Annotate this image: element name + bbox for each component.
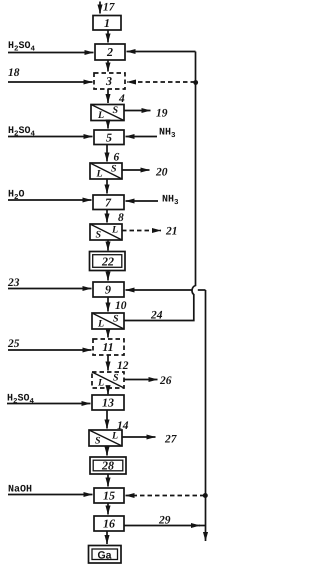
separator 14 [89,430,122,446]
stream 20 output [122,169,150,171]
wire box11 to separator 12 [107,355,109,371]
svg-text:NH3: NH3 [162,195,179,208]
box 7 [93,195,124,210]
wire box2 to box3 [107,60,109,72]
separator 10 [92,313,124,329]
stream 21 dashed output [122,230,161,232]
svg-text:28: 28 [101,459,114,473]
svg-text:21: 21 [165,226,178,238]
svg-text:22: 22 [101,255,114,269]
wire box5 to separator 6 [106,145,108,162]
wire recycle into box 9 from right (passes under hop) [198,289,206,291]
svg-text:11: 11 [102,340,113,354]
svg-text:L: L [97,319,104,330]
svg-text:S: S [96,230,102,241]
box 2 [95,44,125,60]
svg-text:23: 23 [7,277,20,289]
separator 12 (dashed) [92,372,124,388]
wire sep10 to box11 [107,329,109,338]
svg-text:26: 26 [159,375,172,387]
svg-text:L: L [96,169,103,180]
wire box7 to separator 8 [106,210,108,223]
svg-text:13: 13 [102,396,114,410]
wire sep8 to box22 [107,240,109,251]
svg-text:12: 12 [117,360,129,372]
svg-text:9: 9 [105,283,111,297]
svg-text:1: 1 [104,16,110,30]
box 13 [92,395,124,410]
svg-text:20: 20 [155,167,168,179]
wire H2SO4 into box 13 [7,403,91,405]
svg-text:L: L [97,110,104,121]
wire sep14 to box28 [106,446,108,456]
stream 19 output [124,110,151,112]
svg-text:4: 4 [118,93,125,105]
svg-text:3: 3 [105,74,112,88]
wire H2SO4 into box 2 [8,52,94,54]
svg-text:2: 2 [106,45,113,59]
wire recycle into box 2 from right [127,51,196,53]
wire stream 23 into box 9 [8,288,92,290]
svg-text:10: 10 [115,300,127,312]
wire sep12 to box13 [107,388,109,394]
wire NaOH into box 15 [8,494,93,496]
wire NH3 into box 7 [126,200,159,202]
right vertical wire (feeds box 9, box 15, exits bottom) [205,290,207,541]
svg-text:17: 17 [103,2,116,14]
svg-text:7: 7 [105,196,112,210]
wire H2SO4 into box 5 [8,136,93,138]
svg-text:5: 5 [106,131,112,145]
svg-text:L: L [111,431,118,442]
svg-text:6: 6 [114,152,120,164]
svg-text:H2SO4: H2SO4 [8,41,36,54]
separator 4 [91,105,124,121]
wire box22 to box9 [107,271,109,281]
svg-text:15: 15 [103,489,115,503]
junction dot on right vertical [203,493,208,498]
svg-text:S: S [113,314,119,325]
stream 27 output [122,436,156,438]
wire box28 to box15 [107,474,109,487]
svg-text:L: L [111,225,118,236]
wire box13 to separator 14 [106,410,108,429]
box 16 [94,516,124,531]
separator 6 [90,163,122,179]
svg-text:Ga: Ga [97,550,111,562]
separator 8 [90,224,122,240]
box 9 [93,282,124,297]
svg-text:NH3: NH3 [159,128,176,141]
svg-text:18: 18 [8,67,20,79]
svg-text:L: L [97,378,104,389]
box 5 [94,130,124,145]
svg-text:25: 25 [7,338,20,350]
box 28 (double border) [90,457,126,474]
wire stream 18 into box 3 [8,81,93,83]
wire dashed recycle into box 15 from right [126,495,205,497]
box 1 [93,16,121,31]
wire box1 to box2 [107,30,109,43]
wire stream 25 into box 11 [8,349,92,351]
wire H2O into box 7 [8,199,92,201]
svg-text:16: 16 [103,517,115,531]
svg-text:19: 19 [156,108,168,120]
box 11 (dashed) [93,339,124,355]
junction dot at recycle line [193,80,198,85]
svg-text:S: S [95,436,101,447]
svg-text:27: 27 [164,434,178,446]
wire box9 to separator 10 [107,297,109,312]
svg-text:S: S [113,105,119,116]
stream 24 recycle wire up to box 2 (with hop over box9 feed) [124,52,196,321]
svg-text:S: S [113,373,119,384]
svg-text:24: 24 [150,310,163,322]
wire box3 to separator 4 [107,89,109,103]
Ga product box (double border) [89,546,122,564]
box 22 (double border) [90,252,126,271]
wire NH3 into box 5 [126,136,158,138]
wire dashed recycle into box 3 from right [127,81,195,83]
wire sep6 to box7 [106,179,108,194]
svg-text:29: 29 [158,515,171,527]
wire box16 to Ga [106,531,108,544]
stream 17 arrow [99,2,101,14]
box 3 (dashed) [94,73,125,89]
svg-text:8: 8 [118,212,124,224]
box 15 [94,488,124,503]
stream 26 output [124,379,158,381]
wire sep4 to box5 [107,121,109,129]
stream 29 wire to right vertical [124,525,200,527]
svg-text:S: S [111,164,117,175]
wire box15 to box16 [107,503,109,515]
